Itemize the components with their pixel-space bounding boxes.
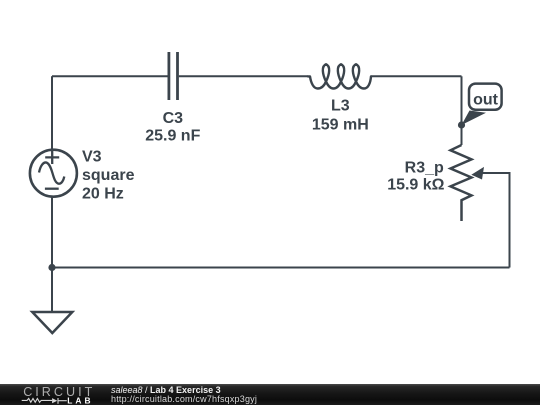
label V3 <box>82 149 135 203</box>
label L3 <box>312 98 369 134</box>
wire right vertical to node <box>461 76 463 145</box>
wire capacitor-to-inductor <box>179 75 308 77</box>
ground <box>32 312 72 333</box>
node out flag <box>462 84 502 125</box>
footer credit line <box>111 386 221 395</box>
svg-text:out: out <box>473 91 499 108</box>
svg-text:V3: V3 <box>82 149 102 166</box>
svg-text:C3: C3 <box>163 110 184 127</box>
potentiometer wiper arrow <box>471 167 484 180</box>
node out junction dot <box>458 121 465 128</box>
svg-text:R3_p: R3_p <box>405 159 444 176</box>
svg-text:20 Hz: 20 Hz <box>82 186 124 203</box>
junction dot bottom-left <box>48 264 55 271</box>
svg-text:15.9 kΩ: 15.9 kΩ <box>387 177 444 194</box>
voltage source V3 <box>30 150 77 197</box>
svg-text:square: square <box>82 167 135 184</box>
footer url line <box>111 395 257 404</box>
wire bottom rail <box>52 267 510 269</box>
wire top-left horizontal <box>52 75 168 77</box>
footer bar <box>0 384 540 405</box>
svg-text:LAB: LAB <box>67 395 93 405</box>
wire source-to-bottom <box>51 197 53 312</box>
svg-text:159 mH: 159 mH <box>312 116 369 133</box>
wire wiper-to-bottom <box>483 173 510 268</box>
potentiometer R3_p <box>451 145 472 221</box>
svg-text:L3: L3 <box>331 98 350 115</box>
wire inductor-to-corner <box>371 75 462 77</box>
svg-text:25.9 nF: 25.9 nF <box>145 128 200 145</box>
capacitor C3 <box>169 52 178 100</box>
wire left vertical <box>51 76 53 150</box>
label R3_p <box>387 159 444 193</box>
circuitlab logo <box>0 384 100 405</box>
label C3 <box>145 110 200 145</box>
inductor L3 <box>308 64 371 88</box>
